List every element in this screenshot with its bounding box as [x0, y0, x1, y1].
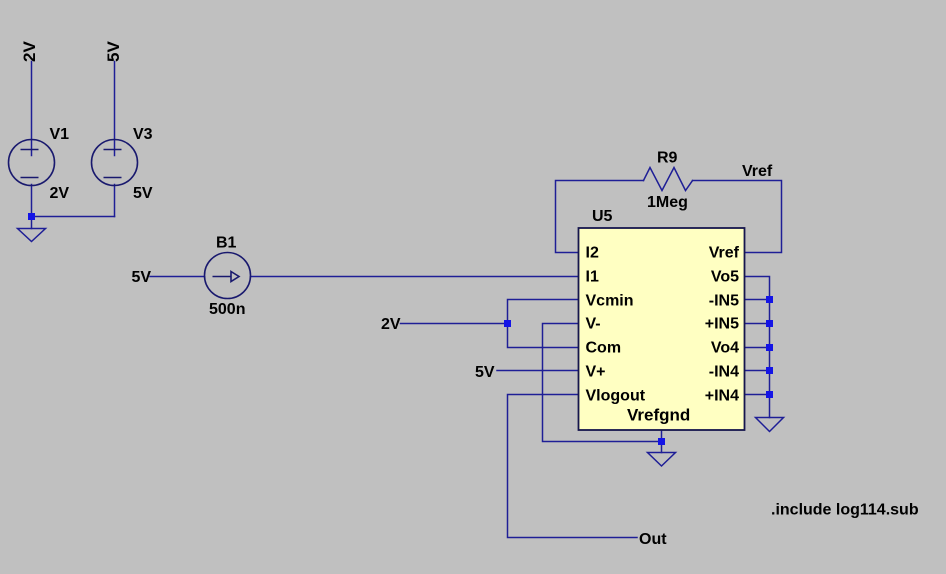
- svg-text:Vref: Vref: [709, 245, 740, 262]
- svg-text:U5: U5: [592, 208, 613, 225]
- svg-text:Vo4: Vo4: [711, 340, 739, 357]
- svg-text:Out: Out: [639, 531, 667, 548]
- svg-text:5V: 5V: [132, 269, 152, 286]
- svg-text:Vo5: Vo5: [711, 269, 739, 286]
- svg-text:Vrefgnd: Vrefgnd: [627, 406, 690, 425]
- svg-text:5V: 5V: [133, 185, 153, 202]
- svg-text:5V: 5V: [104, 41, 123, 62]
- svg-text:2V: 2V: [20, 41, 39, 62]
- svg-text:V+: V+: [586, 364, 606, 381]
- svg-text:2V: 2V: [381, 316, 401, 333]
- svg-text:I2: I2: [586, 245, 599, 262]
- svg-text:Vcmin: Vcmin: [586, 293, 634, 310]
- svg-text:-IN4: -IN4: [709, 364, 739, 381]
- svg-text:I1: I1: [586, 269, 599, 286]
- svg-text:B1: B1: [216, 235, 237, 252]
- svg-text:V-: V-: [586, 316, 601, 333]
- svg-text:Com: Com: [586, 340, 622, 357]
- svg-text:Vref: Vref: [742, 163, 773, 180]
- svg-text:5V: 5V: [475, 364, 495, 381]
- svg-text:.include log114.sub: .include log114.sub: [771, 502, 919, 519]
- svg-text:1Meg: 1Meg: [647, 194, 688, 211]
- svg-text:Vlogout: Vlogout: [586, 388, 646, 405]
- svg-text:+IN4: +IN4: [705, 388, 739, 405]
- svg-text:2V: 2V: [50, 185, 70, 202]
- svg-text:500n: 500n: [209, 301, 245, 318]
- svg-text:V3: V3: [133, 126, 153, 143]
- svg-text:+IN5: +IN5: [705, 316, 739, 333]
- svg-text:R9: R9: [657, 150, 678, 167]
- svg-text:V1: V1: [50, 126, 70, 143]
- svg-text:-IN5: -IN5: [709, 293, 739, 310]
